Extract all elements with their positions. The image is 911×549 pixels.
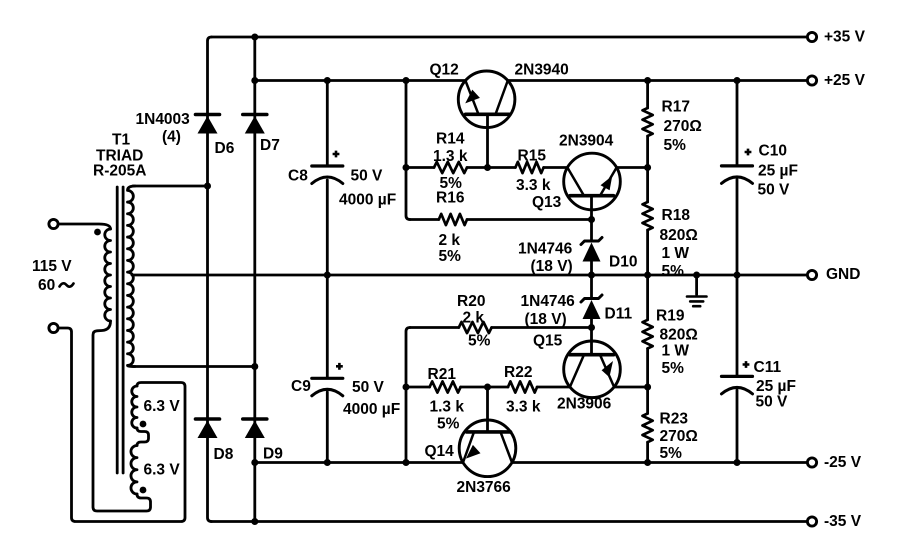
resistor R14 [434, 162, 467, 173]
svg-text:2N3940: 2N3940 [515, 62, 569, 79]
svg-text:(18 V): (18 V) [525, 311, 567, 328]
wire R14 to Q12 base node [467, 166, 515, 169]
junction C8 / +25 V rail [324, 77, 331, 84]
svg-text:4000 µF: 4000 µF [339, 192, 396, 209]
capacitor C11 polarity + [743, 361, 750, 368]
svg-text:270Ω: 270Ω [660, 428, 698, 445]
wire R14 left lead [406, 166, 434, 169]
wire R21 to Q14 base node [461, 386, 508, 389]
wire D10 bottom lead [590, 260, 593, 276]
svg-text:50 V: 50 V [351, 168, 384, 185]
svg-text:5%: 5% [664, 137, 687, 154]
wire C8/C9 column [326, 81, 329, 463]
svg-text:50 V: 50 V [758, 182, 791, 199]
diode D6 [196, 113, 220, 117]
svg-text:C8: C8 [288, 168, 308, 185]
wire R23 top lead [646, 387, 649, 414]
transistor Q14 2N3766 [459, 420, 516, 477]
svg-text:2N3766: 2N3766 [457, 479, 512, 496]
svg-text:25 µF: 25 µF [758, 163, 798, 180]
svg-text:C10: C10 [759, 143, 787, 160]
wire +35 V rail [212, 36, 808, 39]
svg-text:+35 V: +35 V [824, 29, 866, 46]
svg-text:(4): (4) [162, 129, 181, 146]
svg-text:Q15: Q15 [533, 333, 563, 350]
wire R15 to Q13 [544, 166, 568, 169]
wire R19 bottom lead [646, 349, 649, 388]
wire +25 V rail left (unregulated) segment [255, 79, 466, 82]
wire -25 V rail right segment [512, 461, 807, 464]
resistor R18 [643, 202, 653, 230]
svg-text:50 V: 50 V [352, 379, 385, 396]
resistor R23 [643, 414, 653, 443]
zener diode D11 [581, 295, 602, 302]
wire Q13 base lead [590, 196, 593, 220]
svg-text:D9: D9 [263, 446, 283, 463]
svg-text:R14: R14 [436, 131, 465, 148]
terminal +35 V [807, 32, 816, 41]
capacitor C11 [722, 375, 753, 378]
svg-text:R22: R22 [504, 364, 532, 381]
junction D7 column / +35 V rail [251, 34, 258, 41]
svg-text:R15: R15 [518, 148, 547, 165]
wire +25 V rail right segment [508, 79, 807, 82]
terminal -25 V [807, 458, 816, 467]
wire Q14 base lead [486, 387, 489, 432]
transformer T1 6.3 V winding lower [131, 446, 137, 494]
transistor Q13 2N3904 [564, 153, 621, 210]
junction bias bus / R14 [403, 164, 410, 171]
svg-text:5%: 5% [468, 333, 491, 350]
junction D11 / R20 / Q15 base [588, 324, 595, 331]
svg-text:4000 µF: 4000 µF [343, 401, 400, 418]
svg-text:1 W: 1 W [662, 245, 690, 262]
svg-text:(18 V): (18 V) [531, 258, 573, 275]
svg-text:Q14: Q14 [425, 443, 455, 460]
capacitor C9 polarity + [336, 363, 343, 370]
junction Q12 base / R14 / R15 [484, 164, 491, 171]
capacitor C10 [722, 164, 753, 167]
input terminal top [49, 219, 58, 228]
capacitor C10 polarity + [745, 149, 752, 156]
svg-text:5%: 5% [662, 263, 685, 280]
resistor R16 [439, 214, 467, 225]
svg-text:5%: 5% [437, 416, 460, 433]
junction bias bus / -25 V rail [403, 459, 410, 466]
wire Q13 emitter to resistor chain [617, 166, 648, 169]
wire R23 bottom lead [646, 442, 649, 462]
junction C8-C9 / GND rail [324, 272, 331, 279]
terminal GND [807, 270, 816, 279]
junction R23 / -25 V rail [644, 459, 651, 466]
wire -35 V rail [212, 520, 808, 523]
transformer T1 6.3 V winding upper [132, 386, 137, 428]
wire bias bus negative [406, 328, 410, 463]
svg-text:R16: R16 [436, 190, 465, 207]
input terminal bottom [49, 323, 58, 332]
transistor Q12 2N3940 [458, 71, 515, 128]
svg-text:50 V: 50 V [756, 394, 789, 411]
svg-text:R21: R21 [428, 366, 457, 383]
wire R18 bottom lead [646, 230, 649, 275]
wire C10/C11 column [736, 81, 739, 463]
wire input bottom lead to 6.3 V windings [59, 328, 186, 522]
svg-text:D10: D10 [609, 254, 637, 271]
wire R20 left lead [410, 326, 459, 329]
svg-text:2 k: 2 k [463, 310, 485, 327]
svg-text:820Ω: 820Ω [660, 227, 698, 244]
wire D11 bottom lead [590, 317, 593, 328]
svg-text:60: 60 [38, 277, 55, 294]
svg-text:1N4003: 1N4003 [136, 111, 191, 128]
svg-text:1.3 k: 1.3 k [433, 148, 468, 165]
junction R18 / GND rail [644, 272, 651, 279]
svg-text:C9: C9 [291, 378, 311, 395]
junction C9 / -25 V rail [324, 459, 331, 466]
wire Q12 base lead [486, 114, 489, 167]
junction secondary bottom / D7-D9 column [251, 363, 258, 370]
junction Q13 emitter / R17-R18 [644, 164, 651, 171]
svg-text:3.3 k: 3.3 k [506, 399, 541, 416]
junction bias bus / +25 V rail [403, 77, 410, 84]
wire R19 top lead [646, 275, 649, 320]
junction zener column / GND rail [588, 272, 595, 279]
svg-text:GND: GND [826, 266, 860, 283]
svg-text:2N3904: 2N3904 [559, 133, 614, 150]
wire rectifier column D6/D8 (secondary top end) [208, 37, 212, 522]
wire R17 top lead [646, 81, 649, 109]
resistor R21 [430, 381, 461, 392]
svg-text:D7: D7 [260, 137, 280, 154]
wire -25 V rail left (unregulated) segment [255, 461, 463, 464]
junction C11 / -25 V rail [734, 459, 741, 466]
wire 6.3 V windings interconnect [137, 428, 149, 446]
svg-text:Q12: Q12 [430, 62, 459, 79]
svg-text:820Ω: 820Ω [660, 327, 698, 344]
capacitor C8 [312, 164, 343, 167]
wire rectifier column D7/D9 (secondary bottom end) [253, 37, 256, 522]
transformer T1 primary winding [105, 229, 111, 321]
svg-text:2N3906: 2N3906 [557, 396, 612, 413]
diode D7 [243, 113, 267, 117]
svg-text:Q13: Q13 [532, 194, 562, 211]
wire primary bottom lead [93, 321, 151, 511]
svg-text:+25 V: +25 V [824, 72, 866, 89]
wire R16 left lead [410, 218, 439, 221]
wire input top lead [59, 224, 111, 229]
terminal -35 V [807, 517, 816, 526]
wire bias bus positive [406, 81, 410, 220]
wire R16 to Q13 base node [467, 218, 592, 221]
diode D8 [196, 417, 220, 421]
svg-text:R19: R19 [656, 308, 685, 325]
transistor Q15 2N3906 [564, 341, 621, 398]
svg-text:3.3 k: 3.3 k [516, 177, 551, 194]
zener diode D10 [581, 238, 602, 245]
wire D11 top lead [590, 275, 593, 299]
resistor R22 [508, 381, 537, 392]
svg-text:-35 V: -35 V [824, 513, 862, 530]
wire Q15 emitter to resistor chain [614, 386, 648, 389]
junction Q14 base / R21 / R22 [484, 384, 491, 391]
junction bias bus / R21 [403, 384, 410, 391]
resistor R20 [459, 322, 492, 333]
svg-text:6.3 V: 6.3 V [144, 398, 181, 415]
transformer 6.3 V winding upper phasing dot [140, 421, 147, 428]
svg-text:1N4746: 1N4746 [518, 241, 573, 258]
svg-text:R-205A: R-205A [93, 163, 146, 180]
junction Q15 / R19-R23 [644, 384, 651, 391]
svg-text:D6: D6 [215, 140, 235, 157]
svg-text:1 W: 1 W [662, 343, 690, 360]
transformer T1 core [117, 187, 123, 473]
svg-text:1.3 k: 1.3 k [430, 399, 465, 416]
svg-text:T1: T1 [112, 132, 130, 149]
wire R21 left lead [406, 386, 430, 389]
transformer 6.3 V winding lower phasing dot [140, 487, 147, 494]
svg-text:25 µF: 25 µF [756, 378, 796, 395]
svg-text:5%: 5% [662, 360, 685, 377]
resistor R17 [643, 108, 653, 136]
transformer T1 secondary winding (center-tapped) [128, 186, 136, 367]
svg-text:R18: R18 [662, 207, 691, 224]
svg-text:115 V: 115 V [32, 258, 72, 275]
svg-text:6.3 V: 6.3 V [144, 462, 181, 479]
wire GND rail [132, 274, 807, 277]
junction C10-C11 / GND rail [734, 272, 741, 279]
svg-text:2 k: 2 k [439, 232, 461, 249]
diode D9 [243, 417, 267, 421]
junction R17 / +25 V rail [644, 77, 651, 84]
svg-text:D11: D11 [605, 306, 633, 323]
terminal +25 V [807, 76, 816, 85]
svg-text:1N4746: 1N4746 [521, 293, 576, 310]
junction D7 column / +25 V rail [251, 77, 258, 84]
transformer T1 primary phasing dot [94, 229, 101, 236]
svg-text:-25 V: -25 V [824, 454, 862, 471]
svg-text:C11: C11 [754, 359, 782, 376]
junction Q13 base / R16 / D10 [588, 216, 595, 223]
junction D9 column / -35 V rail [251, 518, 258, 525]
junction secondary top / D6-D8 column [204, 183, 211, 190]
wire secondary bottom lead [133, 365, 255, 368]
svg-text:R23: R23 [660, 411, 689, 428]
wire Q15 base lead [590, 328, 593, 355]
wire R22 to Q15 [537, 386, 570, 389]
wire D10 top lead [590, 220, 593, 242]
svg-text:R20: R20 [457, 293, 485, 310]
resistor R19 [643, 320, 653, 349]
wire R17-R18 link [646, 136, 649, 202]
svg-text:R17: R17 [662, 99, 690, 116]
svg-text:270Ω: 270Ω [664, 118, 702, 135]
capacitor C8 polarity + [333, 151, 340, 158]
junction D9 column / -25 V rail [251, 459, 258, 466]
ground symbol [695, 275, 698, 295]
junction ground symbol / GND rail [693, 272, 700, 279]
resistor R15 [515, 162, 543, 173]
wire R20 to D11 node [492, 326, 592, 329]
svg-text:D8: D8 [214, 446, 234, 463]
junction C10 / +25 V rail [734, 77, 741, 84]
wire secondary top lead [133, 185, 208, 188]
svg-text:5%: 5% [660, 445, 683, 462]
capacitor C9 [312, 377, 343, 380]
svg-text:5%: 5% [439, 248, 462, 265]
